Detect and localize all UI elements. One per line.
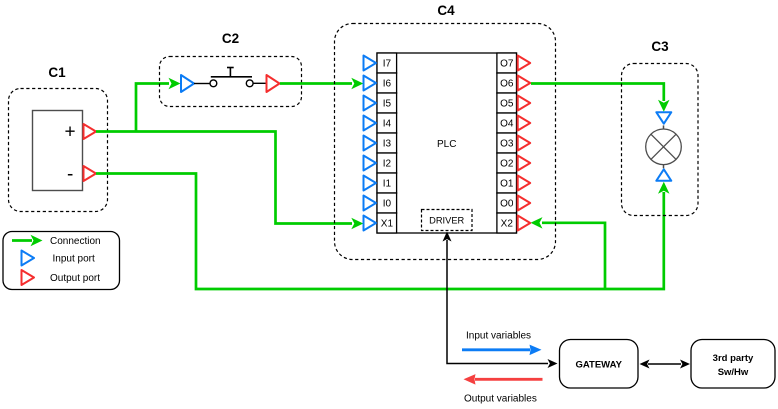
wire C1.minus to C3 bottom [96,174,670,290]
wire switch to C2 output [253,82,266,84]
input port C4.X1 [364,216,377,231]
wire branch C1.plus to C2 input [136,78,181,132]
C1 source body [33,111,83,191]
output port C2 [267,75,280,92]
input port C4.I3 [364,136,377,151]
output port C4.O0 [518,196,531,211]
wire C4.O6 to C3 top [531,84,670,112]
input port C4.I2 [364,156,377,171]
legend connection sample [12,235,43,246]
PLC pin cell I4 [377,113,397,133]
svg-text:O7: O7 [500,59,514,70]
input port C4.I1 [364,176,377,191]
svg-text:C2: C2 [222,31,239,46]
PLC pin cell I6 [377,73,397,93]
svg-text:I0: I0 [383,199,392,210]
svg-text:Input variables: Input variables [466,331,531,342]
input port C4.I6 [364,76,377,91]
output port C4.O7 [518,56,531,71]
output port C4.O3 [518,136,531,151]
output port C1 plus [84,124,97,139]
3rd party block [691,340,775,389]
svg-text:I3: I3 [383,139,392,150]
svg-text:I6: I6 [383,79,392,90]
PLC pin cell I3 [377,133,397,153]
svg-text:PLC: PLC [437,139,456,150]
input port C3 top [656,112,671,124]
wire C1.plus to C4.X1 [96,132,363,230]
PLC pin cell O1 [497,173,517,193]
input port C4.I5 [364,96,377,111]
svg-text:O4: O4 [500,119,514,130]
lamp L1 cross stroke 1 [651,134,676,159]
output port C4.O5 [518,96,531,111]
output port C4.O1 [518,176,531,191]
switch S1 left contact [210,80,217,87]
wire DRIVER to GATEWAY [443,232,558,369]
PLC pin cell I7 [377,53,397,73]
PLC pin cell O7 [497,53,517,73]
output port C4.O4 [518,116,531,131]
svg-text:-: - [67,164,73,185]
switch S1 actuator cap [227,67,234,69]
lamp L1 circle [646,129,682,165]
svg-text:O6: O6 [500,79,514,90]
PLC pin cell I1 [377,173,397,193]
svg-text:C4: C4 [437,3,455,18]
PLC pin cell O3 [497,133,517,153]
component C4 boundary [335,24,556,260]
output port C4.X2 [518,216,531,231]
PLC pin cell X2 [497,213,517,233]
svg-text:I2: I2 [383,159,392,170]
output port C4.O2 [518,156,531,171]
Input variables arrow [462,345,542,356]
svg-text:I5: I5 [383,99,392,110]
input port C4.I0 [364,196,377,211]
svg-text:Output port: Output port [50,273,100,284]
input port C4.I4 [364,116,377,131]
Output variables arrow [464,374,543,385]
svg-text:DRIVER: DRIVER [429,216,464,226]
switch S1 actuator stem [229,68,231,77]
input port C4.I7 [364,56,377,71]
lamp L1 top pin stub [663,125,665,129]
component C1 boundary [9,89,108,212]
svg-text:O5: O5 [500,99,514,110]
PLC pin cell I0 [377,193,397,213]
svg-text:I7: I7 [383,59,392,70]
svg-text:X1: X1 [381,219,394,230]
output port C4.O6 [518,76,531,91]
PLC pin cell X1 [377,213,397,233]
svg-text:O3: O3 [500,139,514,150]
svg-text:X2: X2 [501,219,514,230]
legend input port sample [22,251,35,266]
legend output port sample [22,270,35,285]
output port C1 minus [84,166,97,181]
PLC pin cell O4 [497,113,517,133]
svg-text:+: + [64,122,75,143]
svg-text:Input port: Input port [53,254,95,265]
PLC pin cell I2 [377,153,397,173]
PLC pin cell I5 [377,93,397,113]
svg-text:GATEWAY: GATEWAY [575,359,622,370]
lamp L1 bottom pin stub [663,164,665,168]
wire branch C1.minus to C4.X2 [531,217,606,289]
svg-text:C1: C1 [48,65,66,80]
switch S1 right contact [246,80,253,87]
svg-text:Sw/Hw: Sw/Hw [718,367,749,378]
svg-text:3rd party: 3rd party [713,353,754,364]
switch S1 actuator bar [211,76,252,78]
svg-text:O1: O1 [500,179,514,190]
component C3 boundary [622,64,699,216]
PLC pin cell O2 [497,153,517,173]
PLC pin cell O5 [497,93,517,113]
wire GATEWAY to 3rd party (bidirectional) [640,360,691,369]
svg-text:Connection: Connection [50,236,101,247]
svg-text:O2: O2 [500,159,514,170]
svg-text:O0: O0 [500,199,514,210]
DRIVER block [422,210,473,231]
PLC pin cell O6 [497,73,517,93]
input port C3 bottom [656,169,671,181]
svg-text:C3: C3 [651,39,669,54]
PLC body [377,53,517,233]
wire C2 input to switch [194,83,210,85]
input port C2 [181,75,194,92]
svg-text:I4: I4 [383,119,392,130]
svg-text:I1: I1 [383,179,392,190]
svg-text:Output variables: Output variables [464,394,537,405]
component C2 boundary [160,57,302,107]
legend box [3,232,120,290]
lamp L1 cross stroke 2 [651,134,676,159]
GATEWAY block [560,340,639,389]
wire C2 output to C4.I6 [280,78,363,89]
PLC pin cell O0 [497,193,517,213]
